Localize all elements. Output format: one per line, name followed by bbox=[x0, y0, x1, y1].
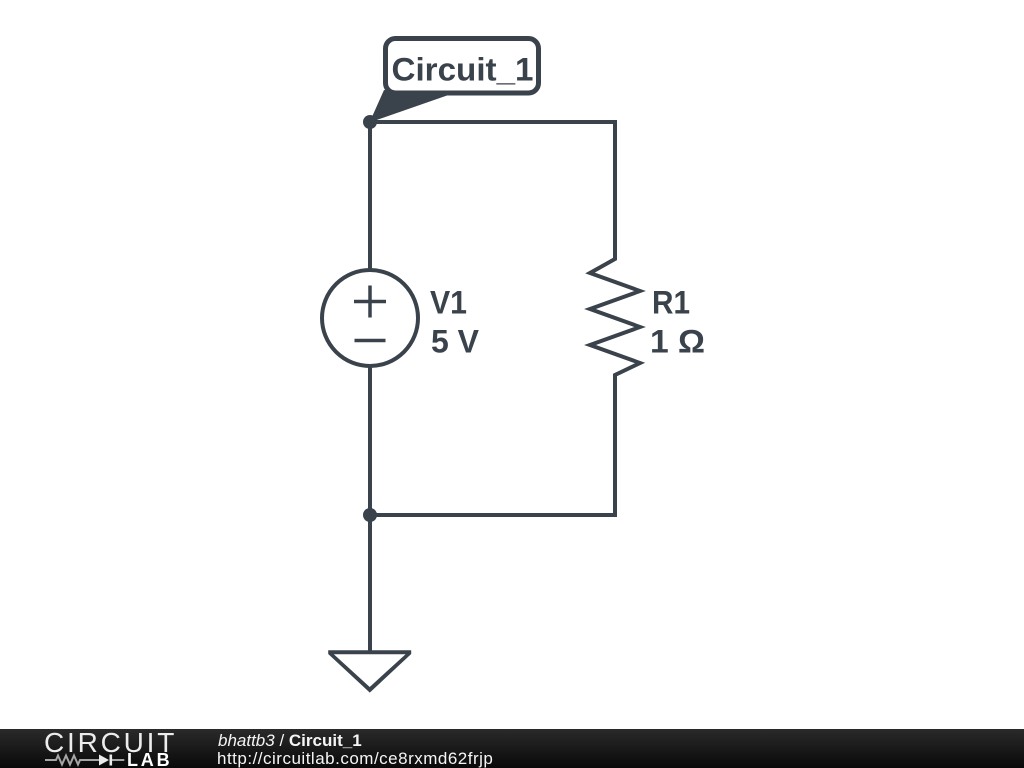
svg-text:5 V: 5 V bbox=[431, 324, 480, 360]
svg-text:Circuit_1: Circuit_1 bbox=[392, 52, 534, 88]
svg-text:R1: R1 bbox=[652, 285, 690, 321]
svg-text:V1: V1 bbox=[430, 285, 467, 321]
svg-text:1 Ω: 1 Ω bbox=[650, 324, 705, 360]
